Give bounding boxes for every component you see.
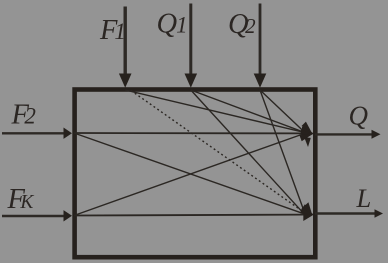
arrow Q output (stem): [315, 133, 373, 135]
svg-text:Q: Q: [349, 101, 369, 131]
wire FK to lower node: [74, 214, 305, 217]
arrow L output (head): [375, 209, 384, 218]
arrow F1 (head): [119, 74, 132, 88]
arrow Q2 (head): [254, 74, 267, 88]
arrow Q output (head): [372, 130, 381, 139]
node L (lower convergence arrowheads): [300, 202, 314, 221]
wire F2 to upper node: [74, 132, 305, 134]
arrow Q1 (head): [185, 74, 198, 88]
box (process block): [75, 90, 316, 258]
svg-text:F2: F2: [11, 100, 36, 131]
arrow F2 (head): [64, 128, 73, 139]
wire F2 to lower node: [74, 133, 304, 214]
arrow Q2 (stem): [259, 4, 262, 76]
svg-text:Q2: Q2: [228, 9, 256, 40]
arrow L output (stem): [315, 212, 375, 214]
arrow F1 (stem): [123, 7, 126, 76]
node Q (upper convergence arrowheads): [299, 122, 314, 147]
wire FK to upper node: [74, 134, 304, 216]
svg-text:Q1: Q1: [157, 9, 188, 40]
svg-text:L: L: [356, 183, 372, 213]
svg-text:F1: F1: [99, 15, 126, 46]
wire F1 to upper node: [125, 90, 305, 133]
wire Q1 to lower node: [191, 90, 304, 214]
wire Q2 to upper node: [260, 90, 305, 133]
wire Q2 to lower node: [260, 90, 305, 214]
arrow FK (head): [64, 210, 73, 221]
arrow Q1 (stem): [189, 4, 192, 76]
wire Q1 to upper node: [191, 90, 305, 133]
arrow F2 (stem): [2, 132, 66, 134]
wire F1 to lower node (dotted): [131, 91, 305, 214]
arrow FK (stem): [2, 215, 66, 217]
